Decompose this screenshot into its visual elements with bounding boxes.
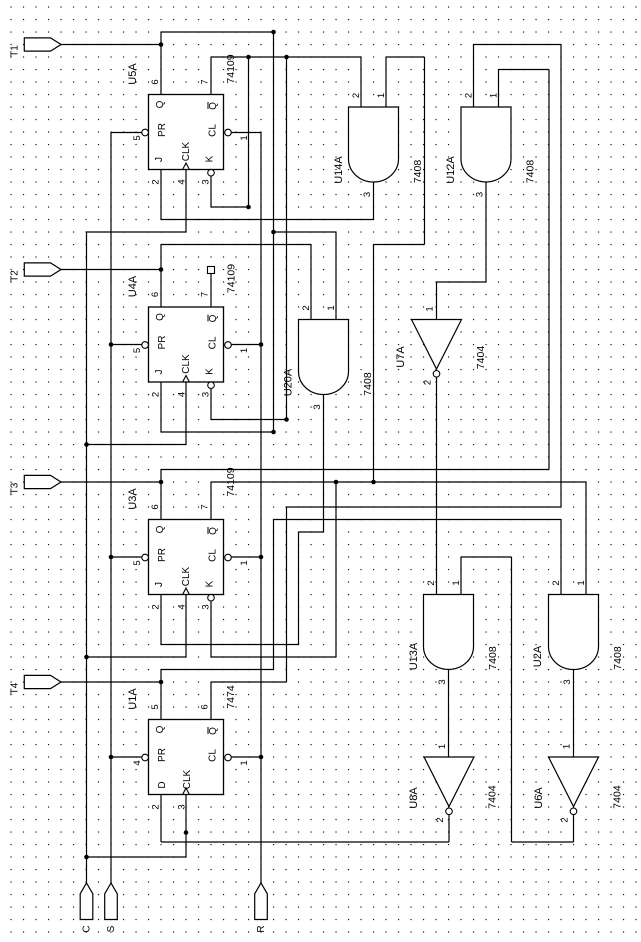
- svg-text:PR: PR: [157, 336, 168, 350]
- wire U5A pin6 rail: [161, 31, 274, 33]
- wire U4A CL wire: [231, 344, 261, 346]
- wire U7A input stub: [436, 282, 438, 320]
- svg-text:7404: 7404: [475, 346, 487, 370]
- AND gate U2A (7408) body: [549, 595, 599, 670]
- wire C bus vertical: [86, 232, 88, 884]
- wire U2A pin1 riser: [585, 482, 587, 595]
- wire U3A J stub: [160, 595, 162, 645]
- wire U1A pin5 stub: [160, 670, 162, 720]
- wire U20A pin2 riser: [160, 245, 162, 270]
- wire U12A pin2 riser: [560, 45, 562, 508]
- svg-text:Q: Q: [208, 314, 219, 322]
- wire U4A J stub: [160, 382, 162, 432]
- flip-flop U3A (74109) body: [149, 520, 224, 595]
- wire U12A pin2 rail: [474, 44, 562, 46]
- svg-text:K: K: [205, 368, 216, 375]
- svg-text:1: 1: [489, 93, 500, 98]
- AND gate U12A (7408) body: [461, 107, 511, 182]
- wire U20A pin1 stub: [335, 232, 337, 320]
- svg-text:CLK: CLK: [181, 354, 192, 374]
- wire U12A pin1 rail: [499, 69, 550, 71]
- wire T2 input: [61, 269, 161, 271]
- input connector T2: [10, 263, 62, 282]
- junction T3 / U3A pin6: [159, 480, 164, 485]
- svg-text:CLK: CLK: [182, 769, 193, 789]
- wire U13A pin1 row: [461, 556, 512, 558]
- flip-flop U4A (74109) body: [149, 307, 224, 382]
- junction T1 bus / U20A pin1 jog: [271, 230, 276, 235]
- wire U1A CLK wire: [87, 856, 187, 858]
- svg-text:J: J: [154, 370, 165, 375]
- wire U14A pin1 stub: [385, 57, 387, 107]
- junction Kbar4 corner: [284, 417, 289, 422]
- junction S / U3A PR: [109, 555, 114, 560]
- svg-text:C: C: [82, 925, 93, 932]
- wire U5A K wire: [211, 206, 249, 208]
- svg-text:Q: Q: [155, 100, 166, 108]
- wire U12A pin2 stub: [473, 45, 475, 108]
- svg-text:4: 4: [177, 392, 188, 397]
- svg-text:7408: 7408: [612, 646, 624, 670]
- wire U13A pin1 stub: [460, 557, 462, 595]
- svg-text:5: 5: [132, 135, 143, 140]
- inverter U6A (7404) body: [549, 757, 599, 807]
- wire U5A J stub: [160, 170, 162, 220]
- wire U4A pin7 NC stub: [210, 274, 212, 308]
- wire U1A PR wire: [111, 756, 142, 758]
- wire U14A pin1 drop to Qbar3 rail: [373, 245, 375, 483]
- svg-text:2: 2: [435, 817, 446, 822]
- junction S / U4A PR: [109, 342, 114, 347]
- svg-text:1: 1: [326, 305, 337, 310]
- AND gate U13A (7408) body: [424, 595, 474, 670]
- svg-text:U7A: U7A: [395, 346, 407, 368]
- svg-text:1: 1: [239, 760, 250, 765]
- svg-text:6: 6: [150, 292, 161, 297]
- svg-text:2: 2: [426, 580, 437, 585]
- svg-text:4: 4: [132, 760, 143, 765]
- wire U20A output jog: [299, 531, 324, 533]
- wire U1A CLK stub: [185, 795, 187, 858]
- wire U3A pin6 stub: [160, 470, 162, 520]
- junction mark on U1A CLK stub: [184, 830, 189, 835]
- svg-text:U13A: U13A: [408, 642, 420, 670]
- svg-text:K: K: [205, 155, 216, 162]
- flip-flop U5A (74109) body: [149, 95, 224, 170]
- wire U1A D stub: [160, 795, 162, 843]
- wire T1 bus vertical: [273, 32, 275, 432]
- wire U5A CL wire: [231, 132, 261, 134]
- wire Qbar3 rail: [211, 481, 586, 483]
- svg-text:Q: Q: [155, 725, 166, 733]
- svg-text:74109: 74109: [225, 54, 237, 83]
- svg-text:2: 2: [151, 179, 162, 184]
- svg-text:5: 5: [132, 560, 143, 565]
- U1A PRE bubble: [142, 754, 149, 761]
- U3A CLR bubble: [225, 554, 232, 561]
- AND gate U20A (7408) body: [299, 320, 349, 395]
- wire U5A J wire: [161, 219, 374, 221]
- svg-text:2: 2: [151, 804, 162, 809]
- wire U6A output stub: [573, 815, 575, 842]
- wire T3 rail: [161, 469, 549, 471]
- no-connect square U4A pin7: [208, 267, 215, 274]
- wire U5A K stub: [210, 176, 212, 207]
- U5A CLR bubble: [225, 129, 232, 136]
- U1A CLR bubble: [225, 754, 232, 761]
- svg-text:R: R: [256, 925, 267, 932]
- input connector S: [105, 883, 118, 932]
- junction K5 corner: [246, 205, 251, 210]
- wire T3 input: [61, 481, 161, 483]
- svg-text:T1: T1: [10, 45, 21, 57]
- svg-text:1: 1: [239, 348, 250, 353]
- svg-text:74109: 74109: [225, 467, 237, 496]
- svg-text:Q: Q: [208, 102, 219, 110]
- wire U12A pin1 stub: [498, 70, 500, 108]
- inverter U7A (7404) body: [412, 320, 462, 370]
- svg-text:J: J: [154, 157, 165, 162]
- svg-text:T2: T2: [10, 270, 21, 282]
- junction Qbar3 / U14A pin1 riser: [371, 480, 376, 485]
- svg-text:U2A: U2A: [532, 645, 544, 667]
- svg-text:T4: T4: [10, 682, 21, 694]
- wire U20A pin2 stub: [310, 245, 312, 320]
- wire U12A out to U7A wire: [437, 281, 487, 283]
- svg-text:U5A: U5A: [127, 63, 139, 85]
- svg-text:5: 5: [150, 704, 161, 709]
- svg-text:Q: Q: [208, 727, 219, 735]
- wire U7A output drop: [436, 377, 438, 594]
- wire U4A K wire: [211, 419, 287, 421]
- svg-text:3: 3: [201, 604, 212, 609]
- U6A output bubble: [570, 808, 577, 815]
- junction S / U1A PR: [109, 755, 114, 760]
- junction R / U1A CL: [259, 755, 264, 760]
- svg-text:PR: PR: [157, 748, 168, 762]
- flip-flop U1A (7474) body: [149, 720, 224, 795]
- wire U14A pin1 jog: [374, 244, 425, 246]
- wire U2A pin2 stub: [560, 520, 562, 595]
- wire U14A pin2 stub: [360, 57, 362, 107]
- wire U13A output stub: [448, 670, 450, 758]
- wire T1 input: [61, 44, 161, 46]
- junction Qbar5/Kbar5: [246, 55, 251, 60]
- U5A PRE bubble: [142, 129, 149, 136]
- svg-text:U12A: U12A: [445, 156, 457, 184]
- wire U14A pin1 rail: [386, 56, 425, 58]
- svg-text:U1A: U1A: [127, 688, 139, 710]
- svg-text:2: 2: [560, 817, 571, 822]
- svg-text:Q: Q: [155, 525, 166, 533]
- wire U4A CLK stub: [185, 382, 187, 445]
- svg-text:7: 7: [200, 79, 211, 84]
- wire U8A out to D wire: [161, 841, 449, 843]
- input connector T3: [10, 475, 62, 494]
- svg-text:6: 6: [150, 79, 161, 84]
- U4A PRE bubble: [142, 342, 149, 349]
- svg-text:Q: Q: [208, 527, 219, 535]
- input connector R: [255, 883, 268, 933]
- wire U1A pin6 stub: [210, 682, 212, 720]
- wire U2A output stub: [573, 670, 575, 758]
- svg-text:3: 3: [177, 804, 188, 809]
- svg-text:K: K: [205, 580, 216, 587]
- input connector T1: [10, 38, 62, 57]
- U5A K-bar bubble: [208, 169, 215, 176]
- svg-text:J: J: [154, 582, 165, 587]
- svg-text:CL: CL: [208, 749, 219, 762]
- svg-text:1: 1: [239, 560, 250, 565]
- wire U3A CLK wire: [87, 656, 187, 658]
- svg-text:CL: CL: [208, 336, 219, 349]
- U3A K-bar bubble: [208, 594, 215, 601]
- wire Kbar5 riser: [248, 57, 250, 207]
- U8A output bubble: [446, 808, 453, 815]
- svg-text:PR: PR: [157, 123, 168, 137]
- svg-text:2: 2: [151, 392, 162, 397]
- svg-text:U14A: U14A: [333, 156, 345, 184]
- svg-text:1: 1: [239, 135, 250, 140]
- wire U3A CLK stub: [185, 595, 187, 658]
- wire U14A output stub: [373, 182, 375, 220]
- wire U5A Q-bar rail: [211, 56, 361, 58]
- svg-text:Q: Q: [155, 313, 166, 321]
- svg-text:1: 1: [576, 580, 587, 585]
- junction pin6 rail corner: [271, 30, 276, 35]
- wire S bus vertical: [110, 133, 112, 884]
- wire U5A CLK stub: [185, 170, 187, 233]
- junction C / U4A CLK: [84, 442, 89, 447]
- svg-text:7474: 7474: [225, 685, 237, 709]
- svg-text:6: 6: [200, 704, 211, 709]
- wire U5A PR wire: [111, 132, 142, 134]
- junction R / U3A CL: [259, 555, 264, 560]
- svg-text:4: 4: [177, 604, 188, 609]
- svg-text:U3A: U3A: [127, 488, 139, 510]
- wire U4A K stub: [210, 388, 212, 419]
- wire Kbar3 riser: [335, 482, 337, 657]
- wire U12A output stub: [485, 182, 487, 282]
- wire Qbar1 row: [211, 681, 287, 683]
- svg-text:2: 2: [423, 380, 434, 385]
- svg-text:PR: PR: [157, 548, 168, 562]
- svg-text:2: 2: [151, 604, 162, 609]
- wire U8A output stub: [448, 815, 450, 842]
- input connector T4: [10, 675, 62, 694]
- svg-text:7408: 7408: [525, 160, 537, 184]
- svg-text:1: 1: [376, 93, 387, 98]
- svg-text:7408: 7408: [412, 160, 424, 184]
- svg-text:2: 2: [301, 305, 312, 310]
- svg-text:U8A: U8A: [408, 787, 420, 809]
- wire U6A out wire: [512, 841, 574, 843]
- wire U3A K wire: [211, 656, 336, 658]
- U4A K-bar bubble: [208, 382, 215, 389]
- junction J4 / T1 bus: [271, 430, 276, 435]
- wire U3A PR wire: [111, 556, 142, 558]
- wire Qbar1 riser rail: [286, 507, 288, 682]
- svg-text:T3: T3: [10, 482, 21, 494]
- svg-text:3: 3: [312, 404, 323, 409]
- svg-text:D: D: [157, 781, 168, 788]
- wire U20A output stub: [323, 395, 325, 533]
- junction Qbar3 / Kbar3 riser: [334, 480, 339, 485]
- svg-text:U4A: U4A: [127, 275, 139, 297]
- junction C / U3A CLK: [84, 655, 89, 660]
- svg-text:5: 5: [132, 348, 143, 353]
- wire U4A PR wire: [111, 344, 142, 346]
- junction C / U1A CLK: [84, 855, 89, 860]
- svg-text:3: 3: [562, 679, 573, 684]
- wire U20A output drop: [298, 532, 300, 645]
- junction T4 / U1A pin5: [159, 680, 164, 685]
- svg-text:74109: 74109: [226, 264, 238, 293]
- wire U1A CL wire: [231, 756, 261, 758]
- svg-text:3: 3: [362, 192, 373, 197]
- svg-text:7404: 7404: [487, 785, 499, 809]
- wire U2A pin2 riser: [273, 520, 275, 670]
- wire U14A pin1 riser: [424, 57, 426, 245]
- wire R bus vertical: [260, 133, 262, 884]
- svg-text:1: 1: [562, 744, 573, 749]
- U7A output bubble: [433, 371, 440, 378]
- svg-text:CL: CL: [208, 549, 219, 562]
- svg-text:CLK: CLK: [181, 141, 192, 161]
- wire U5A CLK wire: [87, 231, 187, 233]
- wire U12A pin2 row: [287, 506, 562, 508]
- wire U20A pin2 rail: [161, 244, 311, 246]
- junction T2 / U4A pin6: [159, 267, 164, 272]
- svg-text:2: 2: [351, 93, 362, 98]
- wire U4A J wire: [161, 431, 274, 433]
- wire U2A pin2 row: [274, 519, 562, 521]
- inverter U8A (7404) body: [424, 757, 474, 807]
- junction R / U4A CL: [259, 342, 264, 347]
- U4A CLR bubble: [225, 342, 232, 349]
- svg-text:3: 3: [475, 192, 486, 197]
- svg-text:3: 3: [201, 179, 212, 184]
- svg-text:U20A: U20A: [283, 368, 295, 396]
- svg-text:CL: CL: [208, 124, 219, 137]
- junction Qbar5/Kbar4: [284, 55, 289, 60]
- svg-text:2: 2: [551, 580, 562, 585]
- junction T1 / pin6: [159, 42, 164, 47]
- wire T4 input: [61, 681, 161, 683]
- wire U3A J wire: [161, 644, 299, 646]
- wire T3 riser: [548, 70, 550, 470]
- svg-text:4: 4: [177, 179, 188, 184]
- wire U5A pin7 stub+rail: [210, 57, 212, 95]
- wire Qbar5 riser to Kbar4: [286, 57, 288, 420]
- svg-text:1: 1: [451, 580, 462, 585]
- wire U4A pin6 stub: [160, 270, 162, 308]
- wire U3A CL wire: [231, 556, 261, 558]
- svg-text:S: S: [106, 925, 117, 932]
- svg-text:1: 1: [437, 744, 448, 749]
- svg-text:3: 3: [201, 392, 212, 397]
- svg-text:U6A: U6A: [533, 787, 545, 809]
- wire U4A CLK wire: [87, 444, 187, 446]
- wire U6A output riser: [511, 557, 513, 842]
- AND gate U14A (7408) body: [349, 107, 399, 182]
- svg-text:1: 1: [425, 306, 436, 311]
- wire T1 to U5A pin6 stub: [160, 32, 162, 95]
- svg-text:7408: 7408: [487, 646, 499, 670]
- svg-text:7404: 7404: [612, 785, 624, 809]
- svg-text:6: 6: [150, 504, 161, 509]
- wire T4 rail: [161, 669, 274, 671]
- svg-text:7408: 7408: [362, 372, 374, 396]
- svg-text:2: 2: [464, 93, 475, 98]
- wire U20A pin1 jog: [274, 231, 337, 233]
- wire U3A K stub: [210, 601, 212, 657]
- svg-text:7: 7: [200, 292, 211, 297]
- svg-text:7: 7: [200, 504, 211, 509]
- svg-text:3: 3: [437, 679, 448, 684]
- svg-text:CLK: CLK: [181, 566, 192, 586]
- U3A PRE bubble: [142, 554, 149, 561]
- input connector C: [80, 883, 93, 933]
- wire U3A pin7 stub: [210, 482, 212, 520]
